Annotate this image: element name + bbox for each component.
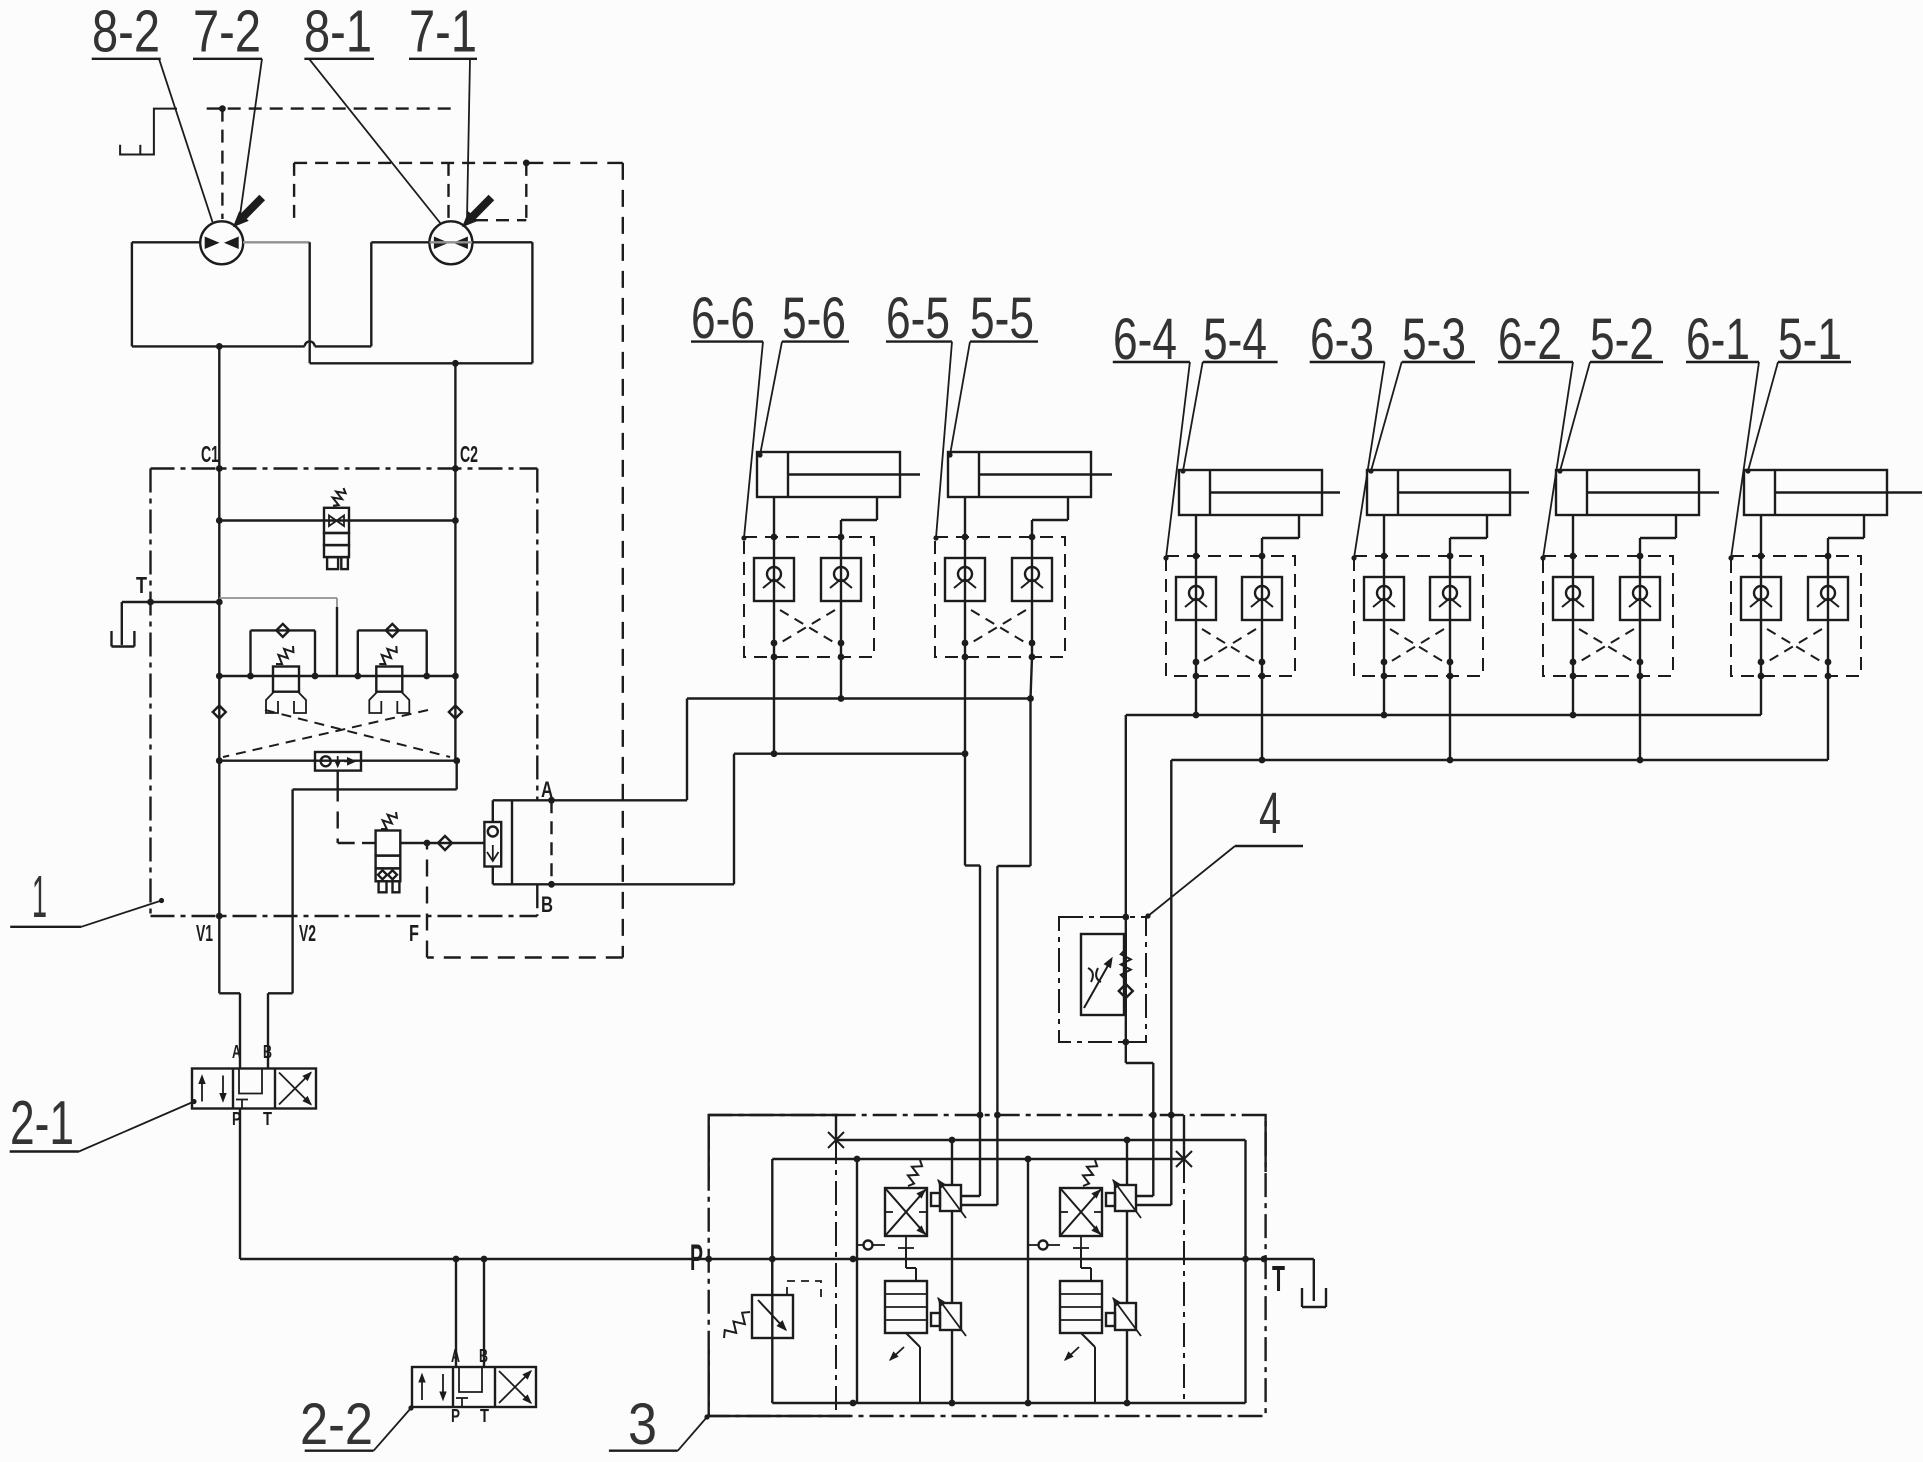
svg-text:C2: C2 bbox=[460, 441, 478, 467]
svg-text:4: 4 bbox=[1259, 781, 1281, 846]
svg-text:8-2: 8-2 bbox=[92, 0, 160, 65]
svg-text:A: A bbox=[541, 777, 553, 802]
svg-text:A: A bbox=[232, 1042, 241, 1062]
svg-text:T: T bbox=[136, 572, 147, 598]
svg-text:8-1: 8-1 bbox=[304, 0, 372, 65]
svg-text:T: T bbox=[480, 1406, 489, 1426]
svg-text:2-1: 2-1 bbox=[10, 1089, 74, 1158]
svg-text:T: T bbox=[263, 1109, 272, 1129]
svg-text:P: P bbox=[451, 1406, 460, 1426]
svg-text:1: 1 bbox=[32, 864, 47, 930]
svg-text:P: P bbox=[690, 1237, 703, 1278]
svg-text:T: T bbox=[1272, 1258, 1285, 1299]
svg-text:B: B bbox=[541, 892, 553, 917]
svg-text:7-1: 7-1 bbox=[409, 0, 477, 65]
svg-text:V2: V2 bbox=[299, 920, 316, 946]
svg-text:C1: C1 bbox=[201, 441, 219, 467]
svg-text:F: F bbox=[409, 920, 419, 946]
svg-text:V1: V1 bbox=[196, 920, 213, 946]
svg-text:B: B bbox=[263, 1042, 272, 1062]
svg-text:2-2: 2-2 bbox=[300, 1392, 373, 1457]
svg-text:7-2: 7-2 bbox=[193, 0, 261, 65]
svg-text:3: 3 bbox=[628, 1392, 657, 1457]
